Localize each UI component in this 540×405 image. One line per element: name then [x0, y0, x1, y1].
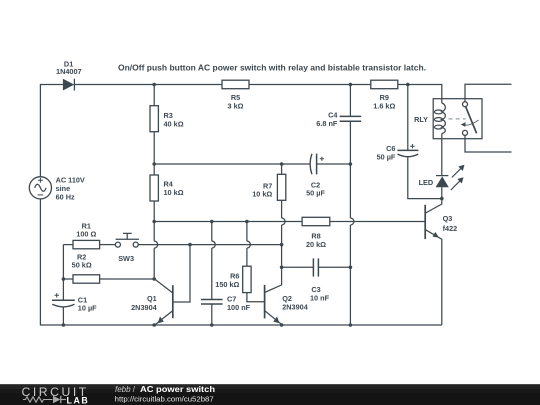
junction node R2 right / Q1 collector: [152, 277, 156, 281]
junction node switch wire to R7 vertical: [280, 243, 284, 247]
svg-text:10 nF: 10 nF: [310, 294, 330, 303]
wire R2 left lead: [63, 278, 73, 280]
capacitor C4: [349, 85, 351, 117]
svg-text:AC power switch: AC power switch: [140, 385, 215, 394]
resistor R6: [243, 266, 251, 292]
wire relay coil bottom to LED: [441, 134, 443, 176]
svg-text:10 kΩ: 10 kΩ: [252, 190, 272, 199]
capacitor C6: [407, 85, 409, 151]
wire switch to Q2 collector node: [138, 244, 281, 246]
wire relay switch top to right: [465, 84, 512, 101]
junction node C3 left: [280, 266, 284, 270]
junction node C3 right: [349, 266, 353, 270]
switch SW3 contact right: [133, 242, 138, 247]
svg-text:2N3904: 2N3904: [282, 303, 309, 312]
resistor R9: [371, 80, 398, 89]
svg-text:SW3: SW3: [118, 254, 134, 263]
resistor R4: [153, 164, 155, 175]
svg-text:2N3904: 2N3904: [131, 303, 158, 312]
junction node Q2 emitter: [280, 323, 284, 327]
wire top rail R5 to R9: [249, 84, 371, 86]
LED D2 emission arrows: [452, 168, 462, 178]
svg-text:50 kΩ: 50 kΩ: [72, 261, 92, 270]
wire rail2: [154, 163, 310, 165]
svg-text:40 kΩ: 40 kΩ: [164, 120, 184, 129]
wire R4 vertical down to R2 node with hop: [153, 222, 155, 280]
svg-text:1.6 kΩ: 1.6 kΩ: [373, 102, 395, 111]
svg-text:R5: R5: [231, 93, 240, 102]
wire R7 vertical hop section to Q2 collector: [281, 225, 283, 267]
svg-text:On/Off push button AC power sw: On/Off push button AC power switch with …: [118, 63, 426, 72]
resistor R5: [222, 80, 249, 89]
svg-text:10 µF: 10 µF: [78, 304, 97, 313]
svg-text:RLY: RLY: [414, 115, 428, 124]
footer logo zigzag resistor and diode: [23, 397, 53, 402]
wire R6 bottom to Q2 base: [247, 293, 265, 302]
junction node C3 ground: [349, 323, 353, 327]
junction node Q1 emitter: [152, 323, 156, 327]
svg-text:20 kΩ: 20 kΩ: [306, 240, 326, 249]
resistor R8: [302, 217, 330, 225]
junction node C6 top: [406, 83, 410, 87]
junction node R3 top: [152, 83, 156, 87]
relay RLY coil: [442, 103, 446, 134]
wire C4 vertical rail2 to C3 with hop: [349, 164, 351, 267]
wire rail3 R8 to Q3 base: [330, 221, 425, 223]
capacitor C7: [201, 299, 223, 301]
wire C2 right to C4 vertical: [317, 163, 351, 165]
voltage source V1 plus: [38, 178, 43, 183]
wire relay switch bottom to right: [465, 135, 512, 152]
junction node C7 top: [210, 220, 214, 224]
junction node C1 bottom: [62, 323, 66, 327]
svg-text:60 Hz: 60 Hz: [56, 192, 75, 201]
wire top rail R9 to relay coil: [398, 85, 442, 104]
switch SW3 actuator: [116, 233, 139, 239]
switch SW3 contact left: [115, 242, 120, 247]
relay RLY box: [433, 99, 482, 139]
junction node R3 bottom / rail2: [152, 162, 156, 166]
svg-text:f422: f422: [443, 224, 458, 233]
junction node Q3 collector: [440, 197, 444, 201]
junction node R2 left: [62, 277, 66, 281]
svg-text:1N4007: 1N4007: [56, 67, 82, 76]
svg-text:http://circuitlab.com/cu52b87: http://circuitlab.com/cu52b87: [115, 395, 214, 404]
svg-text:LED: LED: [419, 178, 434, 187]
svg-text:febb: febb: [115, 385, 131, 394]
junction node C7 bottom: [210, 323, 214, 327]
svg-text:3 kΩ: 3 kΩ: [228, 102, 244, 111]
resistor R3: [153, 85, 155, 106]
wire C6 bottom to Q3 collector node: [408, 157, 442, 199]
voltage source V1 sine: [35, 184, 46, 191]
wire hop C7 vertical over switch wire: [211, 222, 213, 300]
wire C1 bottom to ground rail: [62, 307, 64, 325]
capacitor C1: [62, 279, 64, 300]
capacitor C2: [310, 154, 312, 174]
relay RLY actuation arrow: [464, 120, 479, 125]
transistor Q3: [424, 205, 426, 239]
junction node C4 top: [349, 83, 353, 87]
wire hop C4 vertical over rail3: [350, 218, 354, 225]
wire C7 bottom to ground rail: [211, 304, 213, 325]
voltage source V1 minus: [38, 194, 44, 196]
junction node R6 top: [245, 220, 249, 224]
junction node R4 bottom / rail3: [152, 220, 156, 224]
transistor Q1: [172, 285, 174, 318]
junction node R7 top: [280, 162, 284, 166]
wire LED to Q3 collector node: [441, 187, 443, 198]
capacitor C3: [282, 266, 313, 268]
wire C4 bottom to rail2: [349, 122, 351, 164]
svg-text:Q1: Q1: [147, 294, 157, 303]
transistor Q2: [264, 285, 266, 319]
wire R1 left down to R2: [62, 245, 64, 279]
relay RLY dashed actuation line: [449, 118, 466, 120]
resistor R7: [281, 164, 283, 174]
junction node Q1 base: [188, 243, 192, 247]
wire left rail bottom: [40, 199, 441, 325]
wire hop R6 vertical over switch wire: [246, 222, 248, 267]
junction node C2/C4: [349, 162, 353, 166]
wire hop R7 vertical over rail3: [282, 218, 286, 225]
wire top rail D1 to R5: [74, 84, 222, 86]
relay RLY switch contact top: [463, 102, 468, 107]
resistor R2: [73, 275, 100, 283]
voltage source V1 circle: [29, 177, 51, 199]
LED D2 triangle: [436, 176, 449, 187]
wire C3 right down to ground rail: [349, 267, 351, 325]
svg-text:50 µF: 50 µF: [306, 189, 325, 198]
svg-text:150 kΩ: 150 kΩ: [215, 280, 239, 289]
svg-text:Q3: Q3: [443, 214, 453, 223]
LED D2 cathode bar: [436, 175, 448, 177]
svg-text:100 nF: 100 nF: [227, 303, 251, 312]
footer bar: [0, 384, 540, 405]
svg-text:10 kΩ: 10 kΩ: [164, 188, 184, 197]
svg-text:50 µF: 50 µF: [377, 153, 396, 162]
svg-text:LAB: LAB: [67, 395, 90, 405]
wire rail3 with R8 inline: [154, 221, 302, 223]
wire top rail left segment: [40, 85, 63, 177]
diode D1: [63, 79, 74, 91]
relay RLY switch contact bottom: [463, 130, 468, 135]
svg-text:6.8 nF: 6.8 nF: [316, 119, 338, 128]
resistor R1: [63, 244, 73, 246]
svg-text:100 Ω: 100 Ω: [76, 230, 96, 239]
relay RLY switch arm: [466, 107, 477, 134]
svg-text:R9: R9: [380, 93, 389, 102]
wire hop R4 vertical over switch wire: [154, 241, 158, 248]
